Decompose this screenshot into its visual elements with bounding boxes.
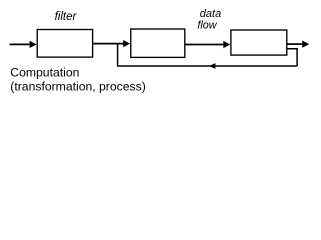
box filter3 <box>231 30 287 55</box>
svg-text:filter: filter <box>55 11 78 23</box>
wire box1 to box2 <box>93 43 124 45</box>
arrowhead input <box>30 41 37 48</box>
wire input <box>10 43 31 45</box>
box filter2 <box>131 29 185 57</box>
svg-text:flow: flow <box>197 20 217 32</box>
wire box2 to box3 <box>185 44 224 46</box>
wire feedback riser to input pipe <box>117 44 119 67</box>
wire feedback tap from box3 right edge <box>287 49 297 66</box>
svg-text:data: data <box>200 8 221 20</box>
wire feedback horizontal <box>118 65 298 67</box>
svg-text:(transformation, process): (transformation, process) <box>10 79 145 93</box>
arrowhead output <box>302 41 309 48</box>
arrowhead box1 to box2 <box>123 40 130 47</box>
arrowhead box2 to box3 <box>223 41 230 48</box>
arrowhead feedback (points left) <box>209 63 216 69</box>
box filter1 <box>37 30 92 58</box>
svg-text:Computation: Computation <box>10 66 79 80</box>
wire output <box>287 43 303 45</box>
